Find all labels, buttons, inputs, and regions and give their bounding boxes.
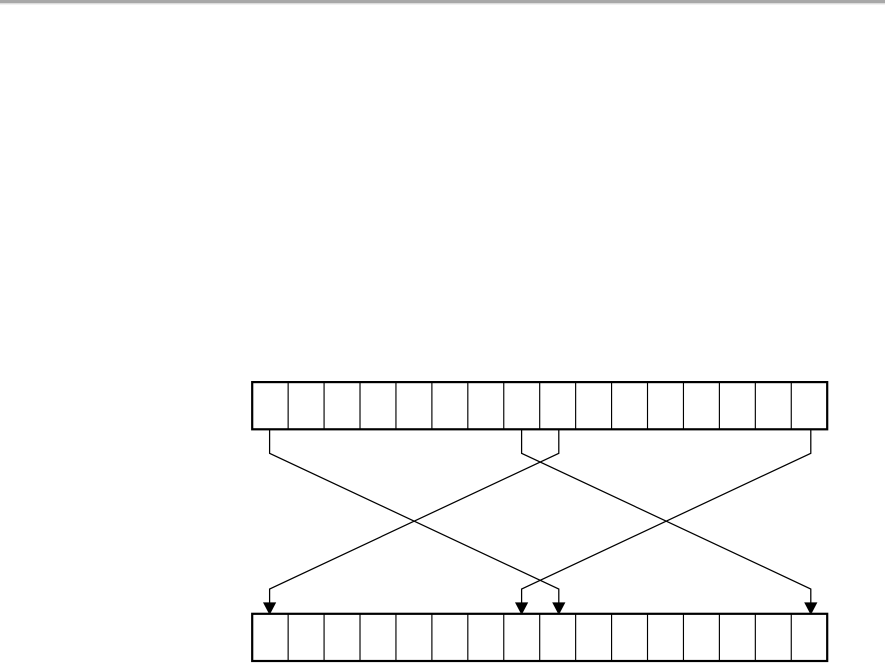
connector: top cell 16 to bottom cell 8: [515, 429, 811, 613]
top gray window-edge bar: [0, 0, 885, 3]
bottom array strip (16 cells): [252, 614, 827, 661]
arrowhead at bottom cell 16: [804, 602, 817, 613]
arrowhead at bottom cell 9: [552, 602, 565, 613]
bottom array cell dividers: [288, 614, 791, 660]
connector: top cell 9 to bottom cell 1: [263, 429, 559, 613]
top array strip (16 cells): [252, 382, 827, 429]
arrowhead at bottom cell 8: [515, 602, 528, 613]
connector: top cell 1 to bottom cell 9: [270, 429, 566, 613]
bottom array outer border: [252, 614, 827, 661]
connector: top cell 8 to bottom cell 16: [522, 429, 818, 613]
top array cell dividers: [288, 383, 791, 429]
arrowhead at bottom cell 1: [263, 602, 276, 613]
top array outer border: [252, 382, 827, 429]
